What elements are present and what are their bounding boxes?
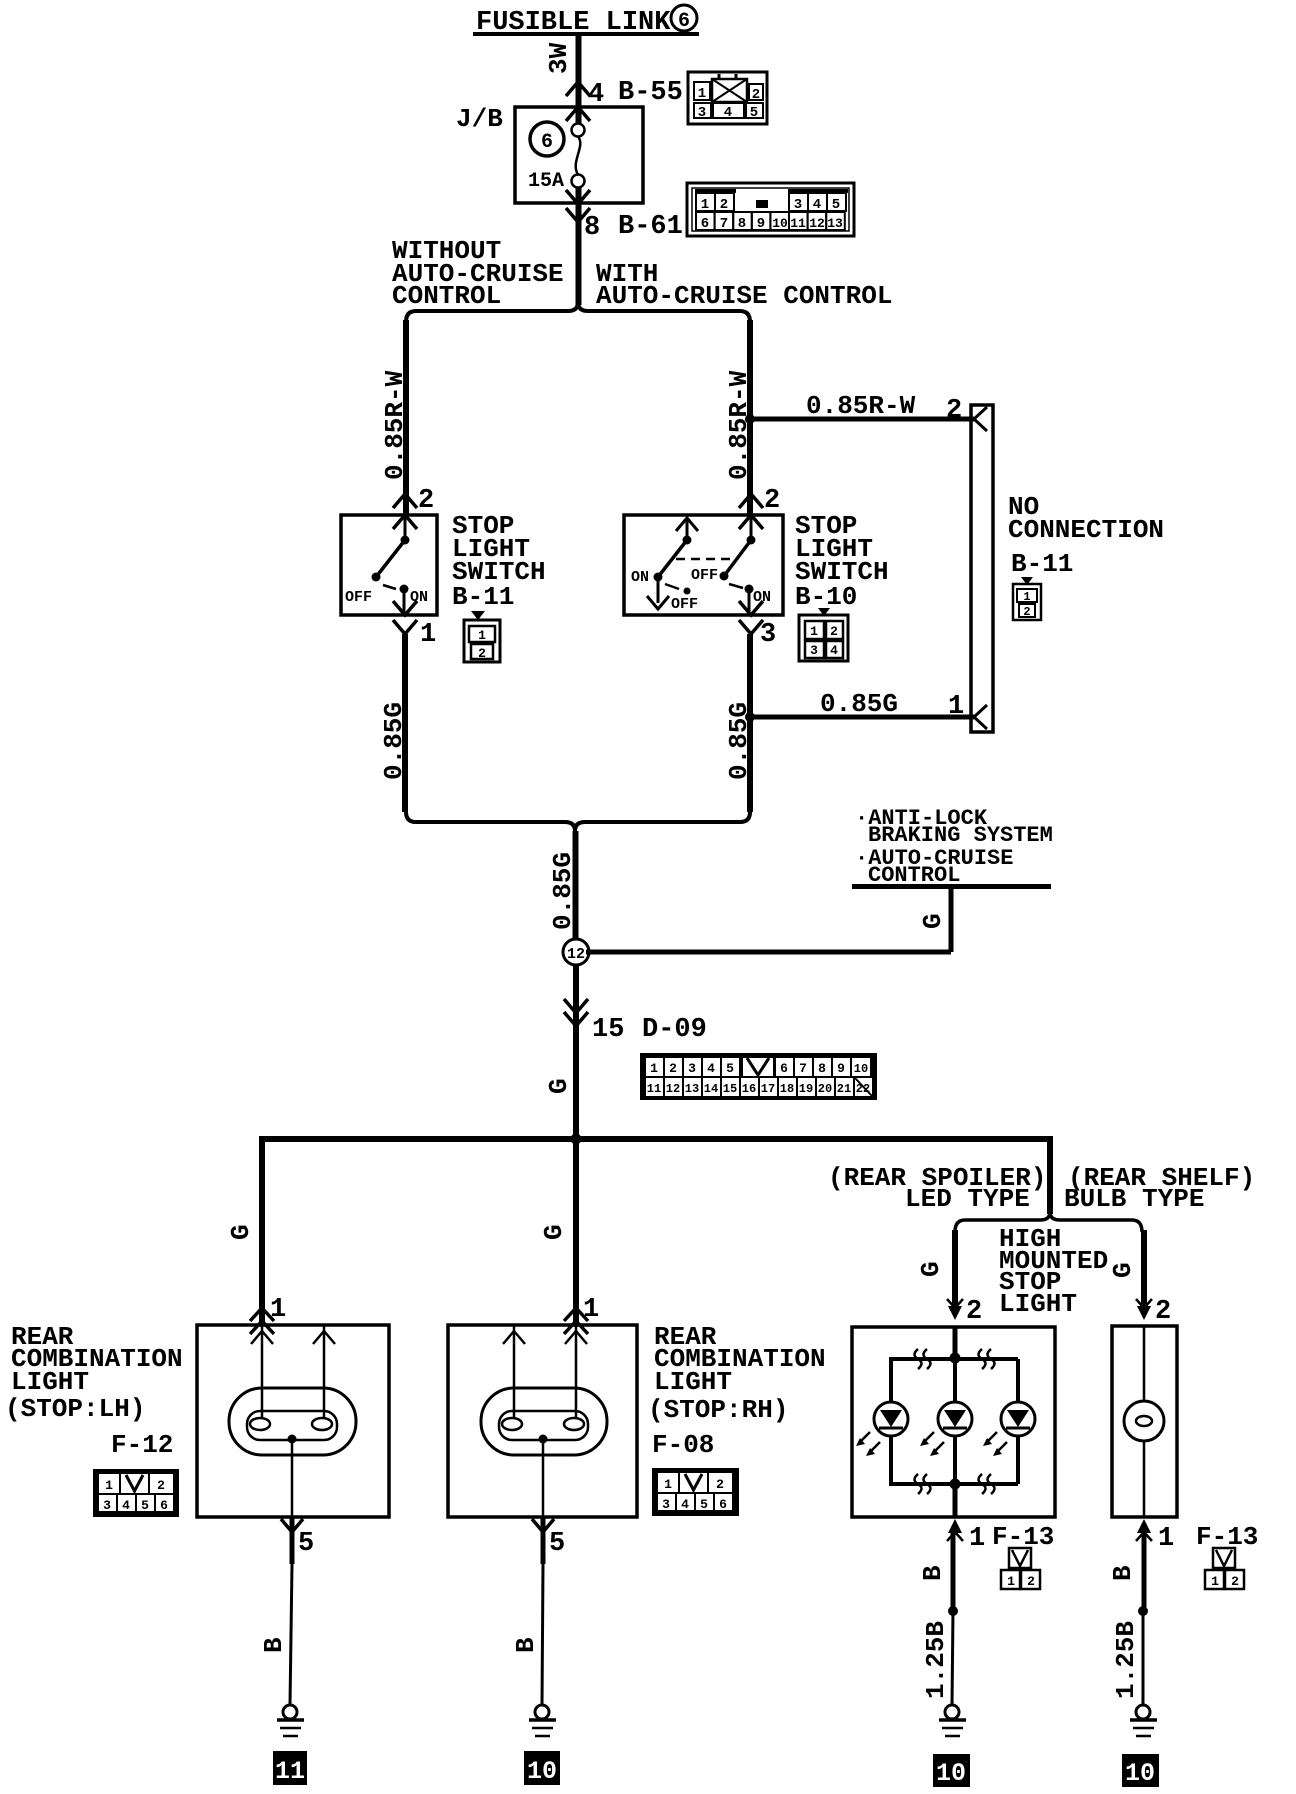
switch B-11 pivot dot	[401, 536, 410, 545]
svg-text:8: 8	[584, 213, 600, 243]
svg-text:3W: 3W	[544, 42, 574, 74]
svg-text:6: 6	[780, 1061, 788, 1076]
junction dot (bulb B wire)	[1138, 1606, 1148, 1616]
wire: right branch 0.85R-W	[747, 320, 753, 515]
wire to pin 1	[403, 589, 406, 615]
ground (LH)	[277, 1705, 304, 1736]
svg-text:17: 17	[761, 1082, 775, 1096]
ground (bulb)	[1130, 1705, 1157, 1736]
svg-text:1: 1	[1158, 1524, 1174, 1554]
svg-text:3: 3	[688, 1061, 696, 1076]
LED unit entry wire	[953, 1327, 958, 1358]
svg-text:2: 2	[1155, 1297, 1171, 1327]
switch B-11 dash	[383, 585, 396, 589]
high mounted split brace	[955, 1212, 1142, 1232]
svg-text:1: 1	[698, 86, 706, 102]
svg-text:OFF: OFF	[691, 567, 718, 584]
wire: 0.85G feed to no-connection	[750, 715, 974, 720]
svg-text:1: 1	[1211, 1574, 1219, 1589]
svg-text:1: 1	[105, 1478, 113, 1493]
REAR COMBINATION LIGHT (STOP:LH) label	[5, 1322, 183, 1460]
connector icon B-55	[688, 72, 767, 124]
wire: drop to LH light	[259, 1136, 265, 1326]
svg-text:2: 2	[669, 1061, 677, 1076]
svg-text:11: 11	[647, 1082, 661, 1096]
svg-text:7: 7	[720, 216, 728, 232]
no-connection box	[971, 405, 993, 732]
svg-text:12: 12	[666, 1082, 680, 1096]
svg-text:1: 1	[948, 692, 964, 722]
switch B-11 ON contact dot	[400, 585, 409, 594]
switch B-10 left down arrow	[657, 577, 660, 603]
svg-text:12: 12	[567, 946, 585, 963]
svg-text:8: 8	[738, 216, 746, 232]
rear combination light RH box F-08	[448, 1325, 637, 1517]
svg-text:2: 2	[946, 396, 962, 426]
connector icon D-09	[640, 1053, 877, 1100]
bulb exit wire	[1143, 1441, 1146, 1517]
junction dot	[745, 712, 755, 722]
connector icon F-13 (LED)	[1001, 1548, 1040, 1589]
svg-text:2: 2	[1027, 1574, 1035, 1589]
switch B-10 right pivot	[747, 536, 756, 545]
svg-text:1: 1	[478, 628, 486, 643]
wire: drop to RH light	[573, 1142, 579, 1326]
svg-text:11: 11	[275, 1757, 305, 1786]
svg-text:F-08: F-08	[652, 1430, 714, 1460]
svg-text:1: 1	[1023, 590, 1030, 604]
svg-text:B-61: B-61	[618, 212, 683, 242]
wire to pin 3	[748, 589, 751, 615]
chevron at B-61	[566, 208, 590, 222]
mechanical link dashed	[676, 558, 734, 561]
wire: LED unit to splice	[951, 1533, 956, 1611]
svg-text:(STOP:LH): (STOP:LH)	[5, 1394, 145, 1424]
svg-text:19: 19	[799, 1082, 813, 1096]
svg-text:B: B	[1108, 1565, 1138, 1581]
svg-text:14: 14	[704, 1082, 718, 1096]
svg-text:LIGHT: LIGHT	[11, 1367, 89, 1397]
svg-text:15: 15	[723, 1082, 737, 1096]
wire: to bulb unit	[1141, 1230, 1147, 1306]
svg-text:0.85R-W: 0.85R-W	[806, 391, 916, 421]
svg-text:2: 2	[752, 87, 760, 103]
RH chevron pin 5	[532, 1519, 554, 1532]
ground reference 10 (RH)	[524, 1751, 560, 1785]
svg-text:G: G	[1108, 1262, 1138, 1278]
RH bulb common dot	[539, 1435, 548, 1444]
svg-text:B-11: B-11	[452, 582, 514, 612]
svg-text:13: 13	[827, 216, 843, 231]
svg-text:1: 1	[969, 1524, 985, 1554]
svg-text:2: 2	[720, 197, 728, 213]
wire: distribution bus	[259, 1136, 1053, 1142]
svg-text:2: 2	[716, 1477, 724, 1492]
svg-text:2: 2	[478, 646, 486, 661]
wire: 1.25B to ground (LED)	[952, 1611, 953, 1705]
LH bulb inner channel	[247, 1411, 337, 1440]
RH internal wire right	[575, 1326, 578, 1418]
RH light chevrons pin 1	[564, 1308, 588, 1334]
svg-text:12: 12	[809, 216, 825, 231]
wire: ABS branch horizontal	[586, 950, 951, 955]
wire: LH light to ground (B)	[290, 1517, 295, 1564]
LH internal wire left	[261, 1325, 264, 1418]
svg-text:0.85G: 0.85G	[820, 689, 898, 719]
ANTI-LOCK / AUTO-CRUISE labels	[855, 806, 1053, 888]
svg-text:2: 2	[830, 624, 838, 639]
LED top node dot	[950, 1353, 961, 1364]
high mounted stop light bulb box	[1112, 1326, 1177, 1517]
LED exit wire	[953, 1484, 958, 1517]
RH filaments	[502, 1418, 522, 1430]
svg-text:4: 4	[707, 1061, 715, 1076]
svg-text:2: 2	[764, 486, 780, 516]
svg-text:0.85G: 0.85G	[548, 852, 578, 930]
arrow out of LED unit pin 1	[948, 1519, 962, 1533]
split brace	[406, 302, 750, 322]
wire: J/B to branch split	[576, 204, 582, 305]
svg-text:1: 1	[701, 197, 709, 213]
svg-text:6: 6	[541, 131, 553, 154]
connector icon F-13 (bulb)	[1205, 1548, 1244, 1589]
STOP LIGHT SWITCH B-11 label	[452, 511, 546, 612]
svg-text:10: 10	[1125, 1759, 1155, 1788]
junction dot	[745, 414, 755, 424]
svg-text:J/B: J/B	[456, 104, 503, 134]
arrow out of bulb unit pin 1	[1137, 1519, 1151, 1533]
small OFF dot and dash (left)	[665, 584, 679, 589]
svg-text:1: 1	[810, 624, 818, 639]
svg-text:5: 5	[832, 197, 840, 213]
switch B-10 chevrons pin 2	[739, 494, 763, 529]
svg-text:CONNECTION: CONNECTION	[1008, 515, 1164, 545]
svg-text:(STOP:RH): (STOP:RH)	[648, 1395, 788, 1425]
svg-text:0.85G: 0.85G	[379, 702, 409, 780]
svg-text:10: 10	[854, 1062, 868, 1076]
svg-text:G: G	[916, 1261, 946, 1277]
wire: fusible link to J/B (3W)	[576, 35, 582, 108]
switch B-11 chevrons pin 2	[393, 494, 417, 529]
switch B-10 right stem	[750, 517, 753, 540]
svg-text:ON: ON	[631, 569, 649, 586]
svg-text:13: 13	[685, 1082, 699, 1096]
LED bottom rail	[889, 1482, 1018, 1486]
merge brace	[406, 812, 750, 831]
chevron out of J/B	[566, 190, 590, 204]
LED 1	[856, 1402, 908, 1456]
connector icon F-12	[93, 1469, 179, 1517]
svg-text:3: 3	[810, 643, 818, 658]
chevrons at D-09 pin 15	[564, 999, 588, 1026]
wire: merged 0.85G trunk	[573, 831, 579, 940]
wire: bulb unit to splice	[1142, 1533, 1147, 1611]
switch B-10 left lever	[658, 540, 687, 577]
svg-text:3: 3	[698, 105, 706, 121]
svg-text:LIGHT: LIGHT	[654, 1367, 732, 1397]
svg-text:CONTROL: CONTROL	[868, 863, 960, 888]
svg-text:1: 1	[270, 1295, 286, 1325]
ground reference 10 (bulb)	[1122, 1754, 1159, 1787]
connector icon B-61	[687, 183, 854, 236]
fuse symbol	[572, 107, 585, 204]
svg-text:10: 10	[772, 216, 788, 231]
junction block J/B box	[515, 107, 643, 203]
(REAR SHELF) BULB TYPE label	[1064, 1163, 1255, 1214]
rear combination light LH box F-12	[197, 1325, 389, 1517]
svg-text:1: 1	[1007, 1574, 1015, 1589]
splice squiggles top right	[979, 1349, 995, 1369]
ground (LED)	[939, 1705, 966, 1736]
svg-text:B-10: B-10	[795, 582, 857, 612]
svg-text:15A: 15A	[528, 170, 564, 193]
svg-text:G: G	[918, 913, 948, 929]
wire: ABS branch vertical	[949, 888, 954, 952]
wire: 0.85R-W feed to no-connection	[750, 417, 974, 422]
svg-text:4: 4	[724, 105, 732, 121]
switch B-10 chevrons pin 3	[739, 601, 763, 634]
svg-text:B-55: B-55	[618, 78, 683, 108]
svg-text:1.25B: 1.25B	[921, 1621, 951, 1699]
svg-text:0.85R-W: 0.85R-W	[380, 370, 410, 480]
svg-text:2: 2	[418, 486, 434, 516]
svg-text:9: 9	[757, 216, 765, 232]
svg-text:6: 6	[719, 1497, 727, 1512]
svg-text:21: 21	[837, 1082, 851, 1096]
svg-text:CONTROL: CONTROL	[392, 281, 501, 311]
svg-text:B: B	[918, 1565, 948, 1581]
svg-text:20: 20	[818, 1082, 832, 1096]
svg-text:G: G	[539, 1224, 569, 1240]
splice squiggles bottom right	[979, 1474, 995, 1494]
svg-text:LED TYPE: LED TYPE	[905, 1184, 1030, 1214]
connector icon B-10	[799, 608, 848, 661]
svg-text:5: 5	[750, 105, 758, 121]
svg-text:8: 8	[818, 1061, 826, 1076]
wire: to LED unit	[952, 1230, 958, 1306]
NO CONNECTION label	[1008, 492, 1164, 579]
svg-text:B: B	[259, 1637, 289, 1653]
stop light switch B-10 box	[624, 515, 783, 615]
STOP LIGHT SWITCH B-10 label	[795, 511, 889, 612]
svg-text:3: 3	[103, 1498, 111, 1513]
ground reference 10 (LED)	[933, 1754, 970, 1787]
wire: drop to high mounted stop light	[1047, 1142, 1053, 1214]
branch label WITHOUT AUTO-CRUISE CONTROL	[392, 236, 564, 311]
splice squiggles top left	[915, 1349, 931, 1369]
svg-text:2: 2	[1023, 605, 1030, 619]
svg-text:AUTO-CRUISE CONTROL: AUTO-CRUISE CONTROL	[596, 281, 892, 311]
wire: B-10 pin3 0.85G down	[747, 634, 753, 812]
svg-text:LIGHT: LIGHT	[999, 1289, 1077, 1319]
switch B-11 lever	[376, 540, 405, 577]
svg-text:BRAKING SYSTEM: BRAKING SYSTEM	[868, 823, 1053, 848]
svg-text:10: 10	[527, 1757, 557, 1786]
svg-text:2: 2	[966, 1297, 982, 1327]
svg-text:3: 3	[760, 620, 776, 650]
LH filaments	[250, 1418, 270, 1430]
svg-text:4: 4	[681, 1497, 689, 1512]
svg-text:F-12: F-12	[111, 1430, 173, 1460]
LED right branch wire	[1016, 1359, 1020, 1403]
wire: left branch 0.85R-W	[403, 320, 409, 515]
LED top rail	[889, 1357, 1018, 1361]
ground reference 11	[273, 1751, 307, 1785]
switch B-10 right lever	[724, 540, 751, 576]
ON contact dot (right)	[745, 585, 754, 594]
title FUSIBLE LINK 6	[473, 5, 699, 38]
REAR COMBINATION LIGHT (STOP:RH) label	[648, 1322, 826, 1460]
svg-text:2: 2	[157, 1478, 165, 1493]
svg-text:1: 1	[420, 620, 436, 650]
splice junction 12	[563, 939, 589, 965]
junction dot (LED B wire)	[948, 1606, 958, 1616]
connector icon F-08	[652, 1468, 739, 1516]
svg-text:1: 1	[583, 1295, 599, 1325]
chevron into J/B	[566, 107, 590, 121]
dash to ON dot (right)	[729, 584, 743, 588]
svg-text:4: 4	[830, 643, 838, 658]
svg-text:5: 5	[141, 1498, 149, 1513]
svg-text:5: 5	[700, 1497, 708, 1512]
svg-text:4: 4	[813, 197, 821, 213]
RH bulb stadium	[481, 1388, 607, 1455]
LED bottom node dot	[950, 1479, 961, 1490]
wire: RH light to ground (B)	[541, 1517, 546, 1564]
switch B-11 stem	[404, 517, 407, 540]
splice squiggles bottom left	[915, 1474, 931, 1494]
junction dot at bus	[571, 1134, 582, 1145]
branch label WITH AUTO-CRUISE CONTROL	[596, 259, 892, 311]
svg-text:B-11: B-11	[1011, 549, 1073, 579]
svg-text:OFF: OFF	[671, 596, 698, 613]
svg-text:7: 7	[799, 1061, 807, 1076]
svg-text:11: 11	[790, 216, 806, 231]
svg-text:10: 10	[936, 1759, 966, 1788]
LH internal wire right	[323, 1325, 326, 1418]
high mounted stop light LED box	[852, 1327, 1055, 1517]
wire: splice to D-09	[573, 965, 579, 1139]
switch B-10 left contact arrow	[676, 518, 698, 531]
svg-text:6: 6	[160, 1498, 168, 1513]
svg-text:18: 18	[780, 1082, 794, 1096]
chevron at NC pin 1	[974, 705, 987, 729]
svg-text:3: 3	[794, 197, 802, 213]
bulb circle	[1124, 1401, 1164, 1441]
chevron at NC pin 2	[974, 407, 987, 431]
wire: B-11 pin1 0.85G down	[402, 634, 408, 812]
svg-text:1: 1	[650, 1061, 658, 1076]
arrow into bulb unit pin 2	[1137, 1306, 1151, 1320]
svg-text:6: 6	[678, 10, 690, 33]
svg-text:22: 22	[856, 1082, 870, 1096]
fusible link number circle 6	[530, 122, 564, 156]
arrow into LED unit pin 2	[948, 1306, 962, 1320]
LH light chevrons pin 1	[250, 1308, 274, 1334]
switch B-11 chevrons pin 1	[393, 601, 417, 634]
switch B-10 left pivot	[683, 536, 692, 545]
svg-text:G: G	[544, 1078, 574, 1094]
HIGH MOUNTED STOP LIGHT label	[999, 1224, 1108, 1319]
svg-text:16: 16	[742, 1082, 756, 1096]
svg-text:OFF: OFF	[345, 589, 372, 606]
LH chevron pin 5	[281, 1519, 303, 1532]
LH bulb stadium	[229, 1388, 356, 1455]
svg-text:4: 4	[122, 1498, 130, 1513]
node: connector B-55 pin 4 chevron	[566, 82, 590, 96]
svg-text:5: 5	[549, 1529, 565, 1559]
svg-text:15: 15	[592, 1015, 624, 1045]
RH bulb output wire	[542, 1439, 545, 1517]
svg-text:6: 6	[701, 216, 709, 232]
svg-text:5: 5	[298, 1529, 314, 1559]
LED 2	[920, 1402, 972, 1456]
ABS system bar	[852, 884, 1051, 889]
svg-text:G: G	[226, 1224, 256, 1240]
svg-text:9: 9	[837, 1061, 845, 1076]
(REAR SPOILER) LED TYPE label	[828, 1163, 1046, 1214]
svg-text:B: B	[511, 1637, 541, 1653]
RH internal wire left	[513, 1325, 516, 1418]
wire: 1.25B to ground (bulb)	[1142, 1611, 1145, 1705]
svg-text:BULB TYPE: BULB TYPE	[1064, 1184, 1204, 1214]
svg-text:1: 1	[664, 1477, 672, 1492]
svg-text:2: 2	[1231, 1574, 1239, 1589]
connector icon B-11	[464, 611, 500, 662]
svg-text:3: 3	[662, 1497, 670, 1512]
ground (RH)	[529, 1705, 556, 1736]
svg-text:1.25B: 1.25B	[1111, 1621, 1141, 1699]
svg-text:D-09: D-09	[642, 1015, 707, 1045]
RH bulb inner channel	[499, 1411, 588, 1440]
svg-text:0.85R-W: 0.85R-W	[724, 370, 754, 480]
connector icon B-11 (no connection)	[1013, 577, 1041, 620]
stop light switch B-11 box	[341, 515, 437, 615]
LH bulb common dot	[288, 1435, 297, 1444]
svg-text:0.85G: 0.85G	[724, 702, 754, 780]
LED center branch wire	[953, 1358, 957, 1403]
svg-text:5: 5	[726, 1061, 734, 1076]
LH bulb output wire	[291, 1439, 294, 1517]
LED left branch wire	[889, 1359, 893, 1403]
bulb entry wire	[1143, 1326, 1146, 1402]
LED 3	[983, 1402, 1035, 1456]
